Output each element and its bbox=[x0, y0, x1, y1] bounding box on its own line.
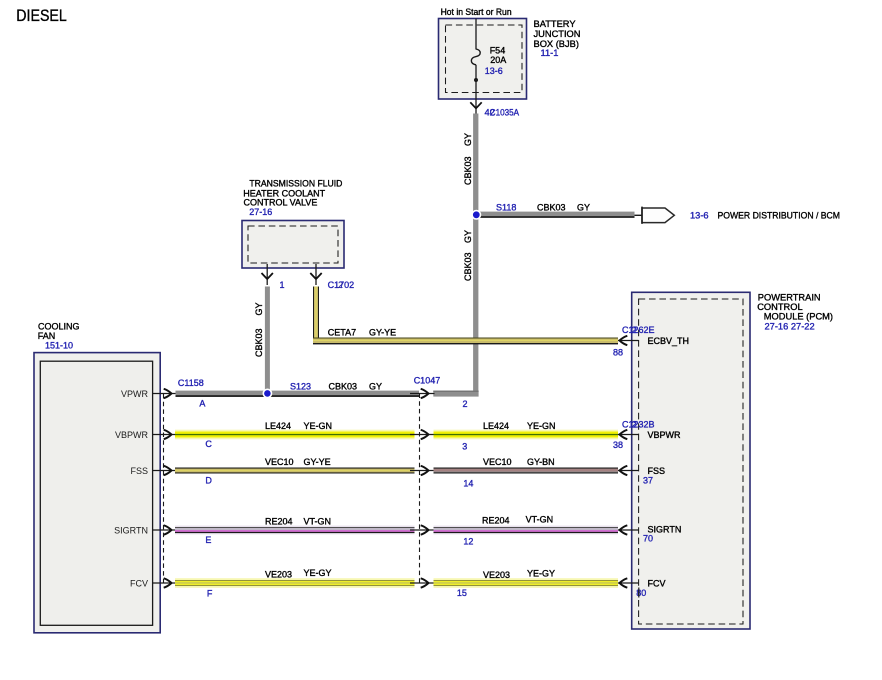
svg-text:C1047: C1047 bbox=[414, 376, 441, 386]
svg-text:FCV: FCV bbox=[130, 579, 148, 589]
svg-text:Hot in Start or Run: Hot in Start or Run bbox=[441, 7, 512, 17]
svg-text:20A: 20A bbox=[490, 55, 506, 65]
wire CBK03 GY from valve pin 1 down to S123 bbox=[265, 287, 270, 392]
svg-text:27-16: 27-16 bbox=[249, 207, 272, 217]
svg-text:VT-GN: VT-GN bbox=[304, 517, 332, 527]
arrow at C1047 VBPWR row bbox=[410, 434, 435, 436]
svg-text:COOLING: COOLING bbox=[38, 321, 80, 331]
PCM pin 80 FCV arrow bbox=[618, 582, 639, 584]
fan pin VPWR stub and arrow bbox=[153, 393, 177, 395]
fan pin FSS stub and arrow bbox=[153, 470, 177, 472]
svg-text:A: A bbox=[199, 399, 205, 409]
svg-text:VBPWR: VBPWR bbox=[115, 430, 149, 440]
svg-text:C: C bbox=[205, 439, 212, 449]
fuse F54 lower wire bbox=[475, 65, 477, 99]
battery junction box inner dashed border bbox=[446, 25, 523, 93]
arrow at C1047 SIGRTN row bbox=[410, 529, 435, 531]
svg-text:151-10: 151-10 bbox=[45, 341, 73, 351]
svg-text:CBK03: CBK03 bbox=[329, 382, 358, 392]
svg-text:YE-GN: YE-GN bbox=[527, 421, 556, 431]
svg-text:VBPWR: VBPWR bbox=[648, 430, 682, 440]
svg-text:2: 2 bbox=[463, 399, 468, 409]
svg-text:GY: GY bbox=[463, 230, 473, 243]
svg-text:GY-YE: GY-YE bbox=[304, 457, 331, 467]
svg-text:F: F bbox=[207, 589, 213, 599]
svg-text:CBK03: CBK03 bbox=[463, 156, 473, 185]
svg-text:VEC10: VEC10 bbox=[265, 457, 294, 467]
svg-text:DIESEL: DIESEL bbox=[16, 7, 67, 25]
PCM pin 37 FSS arrow bbox=[618, 470, 639, 472]
wire FCV left: VE203 YE-GY bbox=[175, 578, 415, 588]
svg-text:GY: GY bbox=[577, 203, 590, 213]
splice S118 dot bbox=[472, 211, 480, 219]
svg-text:CONTROL: CONTROL bbox=[757, 302, 802, 312]
svg-text:FAN: FAN bbox=[38, 331, 56, 341]
svg-text:S118: S118 bbox=[496, 203, 516, 213]
svg-text:FSS: FSS bbox=[130, 466, 148, 476]
svg-text:POWERTRAIN: POWERTRAIN bbox=[758, 292, 821, 302]
valve pin 1 stub and arrow bbox=[266, 264, 268, 285]
wire SIGRTN left: RE204 VT-GN bbox=[175, 526, 415, 535]
svg-text:11-1: 11-1 bbox=[541, 48, 559, 58]
arrow at C1047 FSS row bbox=[410, 470, 435, 472]
svg-text:RE204: RE204 bbox=[482, 516, 510, 526]
svg-text:GY-BN: GY-BN bbox=[527, 457, 555, 467]
wire FCV right: VE203 YE-GY bbox=[434, 578, 619, 588]
svg-text:13-6: 13-6 bbox=[690, 211, 709, 221]
arrow at C1047 VPWR row bbox=[410, 393, 435, 395]
wire CETA7 GY-YE vertical segment from valve pin 2 bbox=[313, 287, 319, 344]
svg-text:CBK03: CBK03 bbox=[537, 203, 566, 213]
wire FSS right: VEC10 GY-BN bbox=[434, 468, 619, 474]
svg-text:LE424: LE424 bbox=[265, 421, 291, 431]
control valve outer box bbox=[242, 221, 344, 269]
wire VBPWR right: LE424 YE-GN bbox=[434, 430, 619, 440]
svg-text:2: 2 bbox=[632, 325, 637, 335]
splice S118 branch wire to power distribution bbox=[478, 212, 642, 218]
svg-text:GY: GY bbox=[463, 133, 473, 146]
svg-text:37: 37 bbox=[643, 476, 653, 486]
svg-text:15: 15 bbox=[457, 588, 467, 598]
svg-text:RE204: RE204 bbox=[265, 517, 293, 527]
wire SIGRTN right: RE204 VT-GN bbox=[434, 526, 619, 535]
svg-text:GY-YE: GY-YE bbox=[369, 327, 396, 337]
off-page connector pentagon to power distribution bbox=[642, 208, 674, 223]
svg-text:C1232B: C1232B bbox=[622, 420, 655, 430]
svg-text:14: 14 bbox=[463, 479, 473, 489]
svg-text:CBK03: CBK03 bbox=[254, 328, 264, 357]
fuse F54 feed wire (top) bbox=[475, 19, 477, 50]
fan pin SIGRTN stub and arrow bbox=[153, 529, 177, 531]
PCM pin 70 SIGRTN arrow bbox=[618, 529, 639, 531]
svg-text:C1262E: C1262E bbox=[622, 325, 655, 335]
svg-text:3: 3 bbox=[462, 442, 467, 452]
fuse F54 element bbox=[471, 49, 480, 65]
PCM pin 88 ECBV_TH arrow bbox=[618, 340, 639, 342]
arrow at C1047 FCV row bbox=[410, 582, 435, 584]
svg-text:MODULE (PCM): MODULE (PCM) bbox=[764, 312, 833, 322]
svg-text:TRANSMISSION FLUID: TRANSMISSION FLUID bbox=[249, 179, 342, 189]
connector C1158 dashed line bbox=[163, 394, 165, 584]
svg-text:YE-GY: YE-GY bbox=[527, 569, 555, 579]
fan pin FCV stub and arrow bbox=[153, 582, 177, 584]
svg-text:FSS: FSS bbox=[648, 466, 666, 476]
svg-text:SIGRTN: SIGRTN bbox=[114, 526, 148, 536]
svg-text:D: D bbox=[205, 476, 212, 486]
splice S123 dot bbox=[263, 389, 271, 397]
wire CETA7 GY-YE horizontal segment to PCM pin 88 bbox=[313, 338, 618, 345]
PCM inner dashed border bbox=[639, 299, 743, 624]
PCM pin 38 VBPWR arrow bbox=[618, 434, 639, 436]
wire VPWR: CBK03 GY fan to S123 to C1047 bbox=[176, 391, 420, 397]
svg-text:F54: F54 bbox=[490, 46, 506, 56]
cooling fan inner box bbox=[40, 361, 152, 625]
svg-text:JUNCTION: JUNCTION bbox=[534, 29, 581, 39]
svg-text:S123: S123 bbox=[290, 382, 311, 392]
wire VBPWR left: LE424 YE-GN bbox=[175, 430, 415, 440]
svg-text:VE203: VE203 bbox=[265, 570, 292, 580]
svg-text:38: 38 bbox=[613, 440, 623, 450]
svg-text:CBK03: CBK03 bbox=[463, 252, 473, 281]
connector C1047 dashed line bbox=[419, 394, 421, 585]
svg-text:C1702: C1702 bbox=[328, 280, 355, 290]
battery junction box (BJB) outer box bbox=[439, 19, 527, 100]
svg-text:70: 70 bbox=[643, 534, 653, 544]
svg-text:GY: GY bbox=[254, 302, 264, 315]
svg-text:VT-GN: VT-GN bbox=[526, 514, 554, 524]
svg-text:C1158: C1158 bbox=[178, 378, 204, 388]
svg-text:YE-GY: YE-GY bbox=[304, 568, 332, 578]
svg-text:POWER DISTRIBUTION / BCM: POWER DISTRIBUTION / BCM bbox=[718, 211, 841, 221]
svg-text:ECBV_TH: ECBV_TH bbox=[648, 336, 690, 346]
svg-text:VE203: VE203 bbox=[483, 570, 510, 580]
svg-text:12: 12 bbox=[463, 537, 473, 547]
svg-text:E: E bbox=[205, 535, 211, 545]
svg-text:88: 88 bbox=[613, 348, 623, 358]
valve pin 2 stub and arrow bbox=[315, 264, 317, 285]
svg-text:GY: GY bbox=[369, 382, 382, 392]
fan pin VBPWR stub and arrow bbox=[153, 434, 177, 436]
fuse junction dot bbox=[474, 78, 478, 82]
svg-text:C1035A: C1035A bbox=[490, 108, 520, 118]
svg-text:YE-GN: YE-GN bbox=[304, 421, 333, 431]
svg-text:27-16 27-22: 27-16 27-22 bbox=[765, 321, 815, 331]
svg-text:BATTERY: BATTERY bbox=[534, 19, 576, 29]
svg-text:SIGRTN: SIGRTN bbox=[648, 525, 682, 535]
svg-text:80: 80 bbox=[636, 588, 646, 598]
svg-text:1: 1 bbox=[280, 280, 285, 290]
main vertical wire CBK03 GY from BJB bbox=[473, 114, 478, 397]
powertrain control module outer box bbox=[632, 292, 750, 629]
svg-text:VPWR: VPWR bbox=[121, 389, 149, 399]
cooling fan outer box bbox=[34, 353, 160, 633]
wire FSS left: VEC10 GY-YE bbox=[175, 468, 415, 474]
svg-text:13-6: 13-6 bbox=[485, 66, 503, 76]
svg-text:CETA7: CETA7 bbox=[328, 327, 356, 337]
control valve inner dashed border bbox=[248, 226, 338, 263]
corner: VPWR feed horizontal segment right of C1047 bbox=[433, 391, 478, 397]
svg-text:2: 2 bbox=[632, 420, 637, 430]
svg-text:VEC10: VEC10 bbox=[483, 457, 512, 467]
svg-text:LE424: LE424 bbox=[483, 421, 509, 431]
svg-text:FCV: FCV bbox=[648, 579, 666, 589]
connector arrow below BJB bbox=[475, 99, 477, 114]
